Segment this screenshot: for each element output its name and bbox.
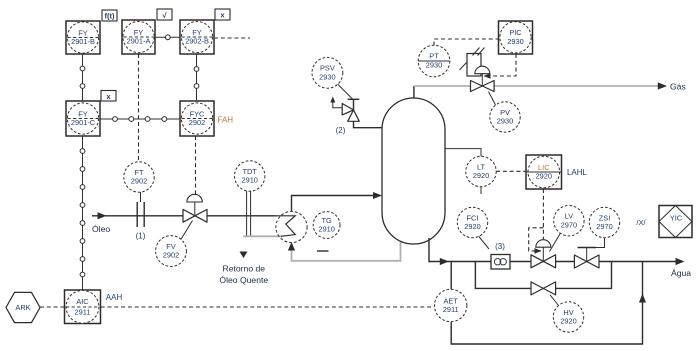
svg-text:Retorno de: Retorno de <box>223 264 266 274</box>
svg-text:2910: 2910 <box>241 176 257 185</box>
tag box sqrt <box>157 9 172 20</box>
svg-text:2920: 2920 <box>560 317 576 326</box>
instrument TG2910 <box>313 212 340 239</box>
svg-text:ARK: ARK <box>15 303 30 312</box>
instrument FV2902 <box>156 236 187 267</box>
gray hot oil return from vessel bottom to exchanger <box>292 242 401 261</box>
svg-text:AAH: AAH <box>106 293 123 302</box>
svg-text:AIC: AIC <box>76 297 89 306</box>
flow arrow down to Retorno <box>240 252 248 259</box>
PV actuator box with slashes <box>467 54 481 77</box>
svg-text:FY: FY <box>78 109 88 118</box>
svg-text:HV: HV <box>563 308 573 317</box>
svg-text:/X/: /X/ <box>636 218 646 227</box>
svg-text:FY: FY <box>134 28 144 37</box>
control valve PV2930 <box>460 48 496 106</box>
PSV vent line with arrow up <box>333 100 343 108</box>
instrument FY2901-C <box>66 91 116 137</box>
svg-text:2970: 2970 <box>561 220 577 229</box>
svg-text:PT: PT <box>429 52 439 61</box>
TG2910 dash mark <box>317 250 329 252</box>
instrument FT2902 <box>124 162 154 192</box>
instrument AET2911 <box>435 289 467 321</box>
svg-text:2920: 2920 <box>473 171 489 180</box>
svg-text:2910: 2910 <box>318 225 334 234</box>
instrument HV2920 <box>553 302 583 332</box>
heat exchanger U1 circle with coil <box>276 211 307 242</box>
wire: dashed signal stub from FY2902-B <box>214 37 250 39</box>
instrument AIC2911 <box>65 290 123 324</box>
gas nozzle from vessel top <box>413 86 415 99</box>
PSV relief line from vessel <box>354 122 383 128</box>
svg-text:2970: 2970 <box>596 222 612 231</box>
svg-text:2930: 2930 <box>319 72 335 81</box>
gate valve ZSI2970 with position switch stem <box>574 238 604 268</box>
tag box x <box>101 91 116 102</box>
tag box x <box>215 9 230 20</box>
svg-text:2902: 2902 <box>163 251 179 260</box>
svg-text:(2): (2) <box>336 126 346 135</box>
signal hexagon ARK <box>6 292 40 322</box>
instrument FCI2920 <box>457 207 487 237</box>
svg-text:2911: 2911 <box>443 305 459 314</box>
svg-text:FAH: FAH <box>218 116 234 125</box>
svg-text:TDT: TDT <box>243 167 258 176</box>
svg-text:PIC: PIC <box>509 28 522 37</box>
svg-text:FCI: FCI <box>467 213 479 222</box>
wire: dashed signal FYC2902 to FV2902 actuator <box>195 136 197 194</box>
svg-text:PV: PV <box>500 108 510 117</box>
svg-text:FV: FV <box>166 242 176 251</box>
svg-text:f(t): f(t) <box>104 12 115 21</box>
instrument LV2970 <box>554 206 584 236</box>
svg-text:ZSI: ZSI <box>599 213 611 222</box>
TDT2910 probe <box>246 191 248 236</box>
svg-text:PSV: PSV <box>320 64 335 73</box>
wire: software link FY2901-B to FY2901-C <box>80 54 85 101</box>
svg-text:FYC: FYC <box>190 109 205 118</box>
instrument TDT2910 <box>235 161 265 191</box>
svg-text:Óleo Quente: Óleo Quente <box>219 275 268 285</box>
instrument FY2902-B <box>180 9 230 54</box>
instrument PT2930 <box>418 45 450 77</box>
instrument PSV2930 <box>312 57 343 88</box>
svg-text:(3): (3) <box>495 242 505 251</box>
control valve LV2970 <box>531 233 561 268</box>
heat exchanger E coil outlet to vessel <box>292 196 381 212</box>
svg-text:YIC: YIC <box>670 214 683 223</box>
control valve FV2902 <box>181 194 207 239</box>
svg-text:LIC: LIC <box>538 163 550 172</box>
wire: dashed signal LT2920 to LIC2920 <box>496 170 526 172</box>
tag box f(t) <box>102 10 117 21</box>
instrument ZSI2970 <box>589 207 619 237</box>
bypass line with HV2920 <box>475 262 611 289</box>
dashed actuator box of LV2970 with arrow <box>529 228 544 251</box>
svg-text:2930: 2930 <box>507 37 523 46</box>
wire: dashed signal PIC2930 to PV2930 with arrow <box>487 54 516 76</box>
svg-text:2902-B: 2902-B <box>185 37 209 46</box>
AET bottom recycle line <box>451 262 642 345</box>
instrument FYC2902 <box>180 101 233 136</box>
svg-text:2930: 2930 <box>426 60 442 69</box>
orifice plate (1) <box>136 202 138 227</box>
instrument LIC2920 <box>526 155 588 189</box>
svg-text:LAHL: LAHL <box>567 168 588 177</box>
relief valve PSV2930 body <box>342 104 353 115</box>
interlock logic YIC <box>636 206 692 238</box>
wire: software link FY2902-B to FYC2902 <box>194 54 199 101</box>
svg-text:TG: TG <box>321 216 332 225</box>
oil feed line with arrow <box>92 215 277 217</box>
svg-text:2901-B: 2901-B <box>71 37 95 46</box>
svg-text:AET: AET <box>444 296 459 305</box>
wire: software link FY2901-C to FYC2902 <box>100 117 180 122</box>
branch down to AET2911 <box>450 262 452 291</box>
wire: software link FY2901-C down to AIC2911 <box>80 136 85 290</box>
svg-text:FT: FT <box>134 168 144 177</box>
svg-text:2902: 2902 <box>131 177 147 186</box>
wire: software link FY2901-A to FY2902-B <box>155 35 180 40</box>
svg-text:2902: 2902 <box>189 118 205 127</box>
vessel V-2900 <box>382 98 445 244</box>
svg-text:2920: 2920 <box>464 222 480 231</box>
instrument PV2930 <box>490 102 520 132</box>
svg-text:2901-A: 2901-A <box>127 37 151 46</box>
instrument PIC2930 <box>499 21 533 54</box>
svg-text:2901-C: 2901-C <box>71 118 96 127</box>
LT tap from vessel <box>445 149 481 157</box>
water outlet line from vessel bottom <box>429 238 678 262</box>
wire: dashed signal LIC2920 to LV2970 actuator <box>542 189 544 239</box>
wire: dashed signal ARK to AIC2911 to AET2911 <box>40 306 65 308</box>
svg-text:LT: LT <box>477 162 486 171</box>
svg-text:FY: FY <box>78 28 88 37</box>
manual valve HV2920 <box>531 282 559 306</box>
svg-text:(1): (1) <box>136 232 146 241</box>
wire: dashed signal FY2901-A to FT2902 <box>138 54 140 162</box>
wire: dashed signal PT2930 to PIC2930 <box>434 39 499 46</box>
instrument FY2901-B <box>66 10 117 54</box>
gray gas line to Gás <box>414 85 659 87</box>
svg-text:LV: LV <box>565 212 574 221</box>
instrument FY2901-A <box>122 9 172 54</box>
restriction meter box (3) <box>479 236 511 269</box>
instrument LT2920 <box>466 156 496 186</box>
leader PSV circle <box>338 84 353 99</box>
svg-text:2930: 2930 <box>497 117 513 126</box>
gray hot oil outlet line under TDT <box>243 235 282 237</box>
svg-text:Água: Água <box>671 268 691 278</box>
svg-text:Gás: Gás <box>670 82 686 92</box>
svg-text:2920: 2920 <box>536 172 552 181</box>
svg-text:Óleo: Óleo <box>92 224 110 234</box>
svg-text:2911: 2911 <box>75 307 91 316</box>
svg-text:FY: FY <box>192 28 202 37</box>
